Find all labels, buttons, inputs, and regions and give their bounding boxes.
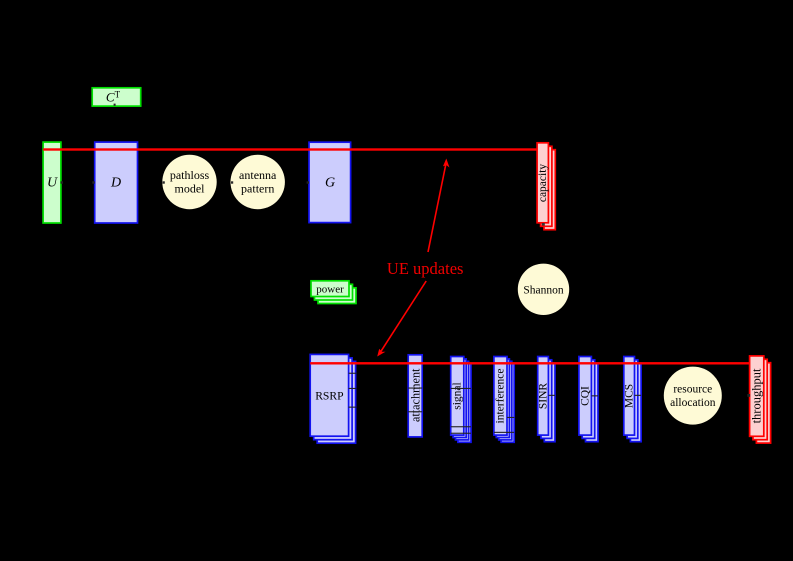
tick on CQI sliver xyxy=(591,395,598,396)
svg-text:G: G xyxy=(325,176,335,191)
node SINR (stack of 3) xyxy=(537,357,555,442)
svg-text:capacity: capacity xyxy=(537,164,549,203)
ticks on interference xyxy=(494,417,515,433)
node Shannon xyxy=(518,264,569,315)
svg-text:RSRP: RSRP xyxy=(315,389,343,402)
svg-text:resource: resource xyxy=(673,383,712,395)
node capacity (stack of 3) xyxy=(537,143,555,230)
node D xyxy=(95,142,138,223)
svg-text:U: U xyxy=(47,176,58,191)
arrowhead dot at capacity bottom xyxy=(542,223,545,226)
arrowhead dot at D left xyxy=(92,181,94,183)
top red line xyxy=(43,148,537,150)
svg-text:SINR: SINR xyxy=(537,383,549,410)
node CQI (stack of 3) xyxy=(579,357,598,442)
svg-text:pattern: pattern xyxy=(241,182,274,196)
node CT xyxy=(92,88,141,106)
arrowhead dot U-D xyxy=(61,181,63,183)
node attachment xyxy=(408,355,422,437)
svg-text:UE updates: UE updates xyxy=(387,259,464,278)
arrowhead dot at resource allocation left xyxy=(665,394,667,396)
svg-text:interference: interference xyxy=(495,369,507,424)
arrowhead dot at throughput left xyxy=(747,394,750,397)
arrowhead dot at G left xyxy=(307,181,309,183)
arrowhead dot at pathloss left xyxy=(163,181,165,183)
node pathloss model xyxy=(162,155,216,209)
svg-text:antenna: antenna xyxy=(239,168,277,182)
svg-text:CQI: CQI xyxy=(579,386,591,406)
svg-text:allocation: allocation xyxy=(670,397,716,409)
svg-text:MCS: MCS xyxy=(623,384,635,408)
svg-text:model: model xyxy=(175,182,206,196)
arrowhead dot at antenna left xyxy=(231,181,233,183)
svg-text:pathloss: pathloss xyxy=(170,168,210,182)
svg-text:signal: signal xyxy=(452,382,464,409)
node RSRP (stack of 3) xyxy=(310,354,355,443)
node MCS (stack of 3) xyxy=(623,357,641,442)
ticks on attachment xyxy=(408,388,422,413)
ticks on signal xyxy=(451,388,471,434)
svg-text:D: D xyxy=(110,176,121,191)
arrow tail dot below CT xyxy=(114,104,116,106)
tick on MCS sliver xyxy=(635,395,642,396)
tick on SINR sliver xyxy=(548,395,555,396)
node G xyxy=(309,142,351,222)
node resource allocation xyxy=(664,367,722,425)
node throughput (stack of 3) xyxy=(750,356,771,443)
node antenna pattern xyxy=(231,155,285,209)
node power (stack of 3) xyxy=(311,281,356,304)
bottom red line xyxy=(310,362,750,364)
svg-text:attachment: attachment xyxy=(409,368,423,422)
svg-text:Shannon: Shannon xyxy=(523,284,564,296)
node signal (stack of 4) xyxy=(451,357,471,443)
node U xyxy=(43,142,61,223)
node interference (stack of 4) xyxy=(494,357,514,443)
svg-text:throughput: throughput xyxy=(750,368,764,423)
svg-text:power: power xyxy=(316,284,344,296)
red arrow up to top line xyxy=(428,159,450,253)
red arrow down to bottom line xyxy=(377,281,426,357)
ticks on RSRP sliver xyxy=(349,373,357,408)
